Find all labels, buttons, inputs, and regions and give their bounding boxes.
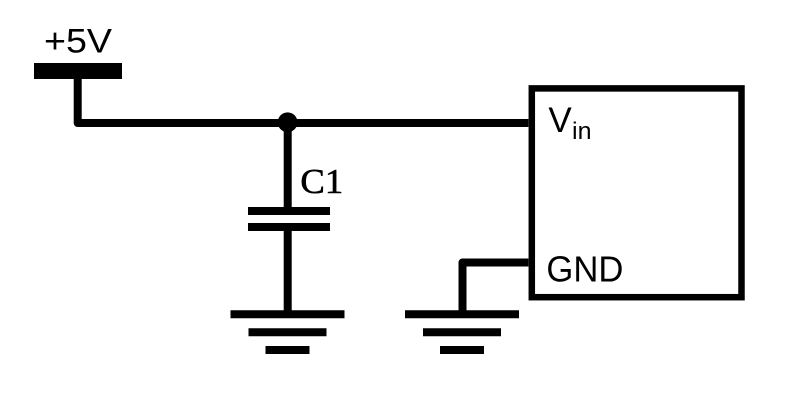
ground under C1 — [231, 314, 345, 350]
power rail +5V bar — [34, 63, 122, 79]
wire GND pin to ground — [463, 263, 529, 315]
svg-text:C1: C1 — [300, 162, 343, 201]
wire from +5V bar to horizontal rail to Vin — [78, 75, 529, 123]
label +5V — [44, 23, 112, 61]
pin label Vin — [548, 101, 591, 145]
wire C1 to ground — [284, 227, 292, 314]
IC box U1 — [532, 88, 742, 297]
label C1 — [300, 162, 343, 201]
capacitor C1 — [248, 211, 330, 227]
svg-text:+5V: +5V — [44, 23, 112, 61]
wire junction to C1 — [284, 122, 292, 210]
svg-text:GND: GND — [546, 249, 623, 290]
svg-text:V: V — [548, 101, 572, 140]
ground under GND pin — [405, 314, 519, 350]
svg-text:in: in — [572, 118, 592, 145]
pin label GND — [546, 249, 623, 290]
node junction dot — [278, 112, 298, 132]
